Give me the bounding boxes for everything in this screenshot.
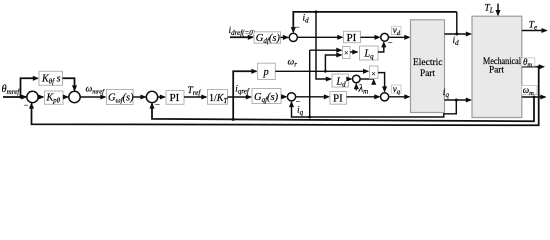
- wire sum d1 to d-axis PI: [297, 35, 343, 40]
- wire multiplier d to L_q: [350, 49, 359, 54]
- wire omega_mref to G_omegaf: [80, 94, 107, 99]
- wire d PI to summing junction 5: [361, 35, 381, 40]
- summing junction 6 flux sum: [353, 75, 361, 83]
- block K_ptheta position P gain: [45, 91, 64, 105]
- wire G_df to summing junction d1: [281, 35, 290, 40]
- wire G_qf to summing junction 4: [281, 94, 287, 99]
- svg-text:−: −: [155, 100, 160, 110]
- node junction omega_m tap: [232, 118, 235, 121]
- wire i_d down to L_d: [316, 12, 332, 82]
- block multiplier d-axis: [343, 47, 351, 59]
- svg-text:p: p: [263, 67, 269, 78]
- svg-text:PI: PI: [347, 32, 357, 44]
- wire theta_m feedback to summing junction 1: [29, 67, 539, 126]
- wire i_q return path under Electric block: [292, 100, 457, 117]
- block L_q inductance: [360, 46, 379, 61]
- wire L_q up into summing junction 5 bottom: [378, 41, 386, 52]
- wire L_d to summing junction 6: [346, 76, 352, 81]
- wire K_ptheta to summing junction 2: [63, 94, 69, 99]
- node junction feedforward branch: [19, 96, 22, 99]
- block Electric Part: [411, 20, 445, 113]
- wire theta_mref into summing junction: [3, 94, 27, 99]
- wire summing junction 6 to multiplier q: [360, 79, 376, 85]
- summing junction 4 q current error: [287, 93, 295, 101]
- block PI d-axis current controller: [344, 31, 361, 44]
- wire sum4 to q-axis PI: [296, 94, 330, 99]
- wire v_q into Electric Part: [389, 94, 411, 99]
- block Mechanical Part: [472, 16, 522, 117]
- svg-text:−: −: [24, 100, 29, 110]
- wire sum1 to K_ptheta: [38, 94, 45, 99]
- svg-text:PI: PI: [333, 93, 343, 105]
- block multiplier q-axis: [370, 66, 379, 79]
- wire omega_m feedback to summing junction 3: [149, 97, 534, 121]
- wire i_q vertical distribution: [309, 50, 311, 117]
- node theta_mref input label: [2, 84, 21, 96]
- svg-text:Part: Part: [420, 68, 436, 78]
- wire i_dref into G_df: [230, 35, 254, 40]
- wire T_ref speed PI to 1/KT: [184, 94, 208, 99]
- wire i_d tap up to top rail: [456, 12, 458, 34]
- node junction omega_m tap: [533, 96, 536, 99]
- node v_q label: [392, 84, 402, 96]
- node junction theta_m tap: [537, 65, 540, 68]
- block PI q-axis current controller: [330, 92, 347, 105]
- wire omega_m up to p block: [233, 69, 257, 120]
- wire lambda_m into summing junction 6: [354, 83, 359, 90]
- wire T_e output: [522, 28, 548, 33]
- summing junction 2 speed reference sum: [69, 91, 80, 102]
- node junction i_d tap: [455, 33, 458, 36]
- node junction i_q tap: [455, 99, 458, 102]
- summing junction 5 v_d sum: [381, 33, 389, 41]
- arrowhead i_q into sum4 bottom: [289, 101, 294, 107]
- wire i_qref from 1/KT to G_qf: [228, 94, 253, 99]
- svg-text:Electric: Electric: [413, 57, 443, 67]
- block L_d inductance: [332, 74, 349, 89]
- svg-text:Part: Part: [489, 64, 505, 74]
- wire i_d from Electric to Mechanical: [445, 31, 473, 36]
- summing junction d1 d current error: [289, 33, 297, 41]
- node omega_m label: [522, 85, 537, 97]
- wire i_q branch into multiplier d top input: [310, 48, 343, 53]
- arrowhead i_d into sum d1 top: [291, 27, 296, 33]
- summing junction 1 position error: [27, 91, 38, 102]
- node junction i_q vertical tap: [308, 116, 311, 119]
- node junction i_d branch to L_d: [315, 10, 318, 13]
- block p pole pairs: [258, 63, 276, 79]
- wire multiplier q output into summing junction 7 top: [378, 73, 387, 93]
- wire i_q from Electric to Mechanical: [445, 97, 473, 102]
- summing junction 7 v_q sum: [381, 93, 389, 101]
- svg-text:×: ×: [344, 49, 349, 58]
- wire v_d into Electric Part: [389, 35, 411, 40]
- wire sum3 to speed PI: [157, 94, 166, 99]
- node junction omega_r branch: [324, 70, 327, 73]
- wire K_thetaf output into summing junction 2: [63, 78, 78, 91]
- wire omega_m output: [522, 94, 547, 99]
- block 1/KT torque constant inverse: [208, 90, 229, 105]
- block G_df d-axis current filter: [254, 32, 281, 45]
- wire q PI to summing junction 7: [347, 94, 381, 99]
- svg-text:Gqf(s): Gqf(s): [254, 92, 279, 104]
- svg-text:−: −: [388, 37, 393, 47]
- svg-text:PI: PI: [170, 92, 180, 104]
- block K_thetaf_s feedforward gain: [39, 71, 63, 85]
- block G_omegaf speed filter: [107, 90, 135, 105]
- wire feedforward branch up to K_thetaf block: [21, 76, 40, 97]
- block PI speed controller: [166, 91, 184, 105]
- wire omega_r branch up into multiplier d bottom input: [325, 52, 342, 71]
- block G_qf q-axis current filter: [252, 89, 281, 105]
- wire G_omegaf to summing junction 3: [133, 94, 147, 99]
- wire T_L into Mechanical top: [495, 4, 500, 17]
- svg-text:Gdf(s): Gdf(s): [256, 33, 281, 45]
- svg-text:−: −: [295, 22, 300, 32]
- summing junction 3 speed error: [146, 91, 157, 102]
- node theta_m label: [521, 57, 535, 69]
- svg-text:×: ×: [371, 69, 376, 78]
- node v_d label: [392, 25, 402, 37]
- wire theta_m output: [522, 64, 545, 69]
- wire i_d feedback top rail: [293, 12, 457, 32]
- wire omega_r from p to multiplier q: [275, 69, 369, 74]
